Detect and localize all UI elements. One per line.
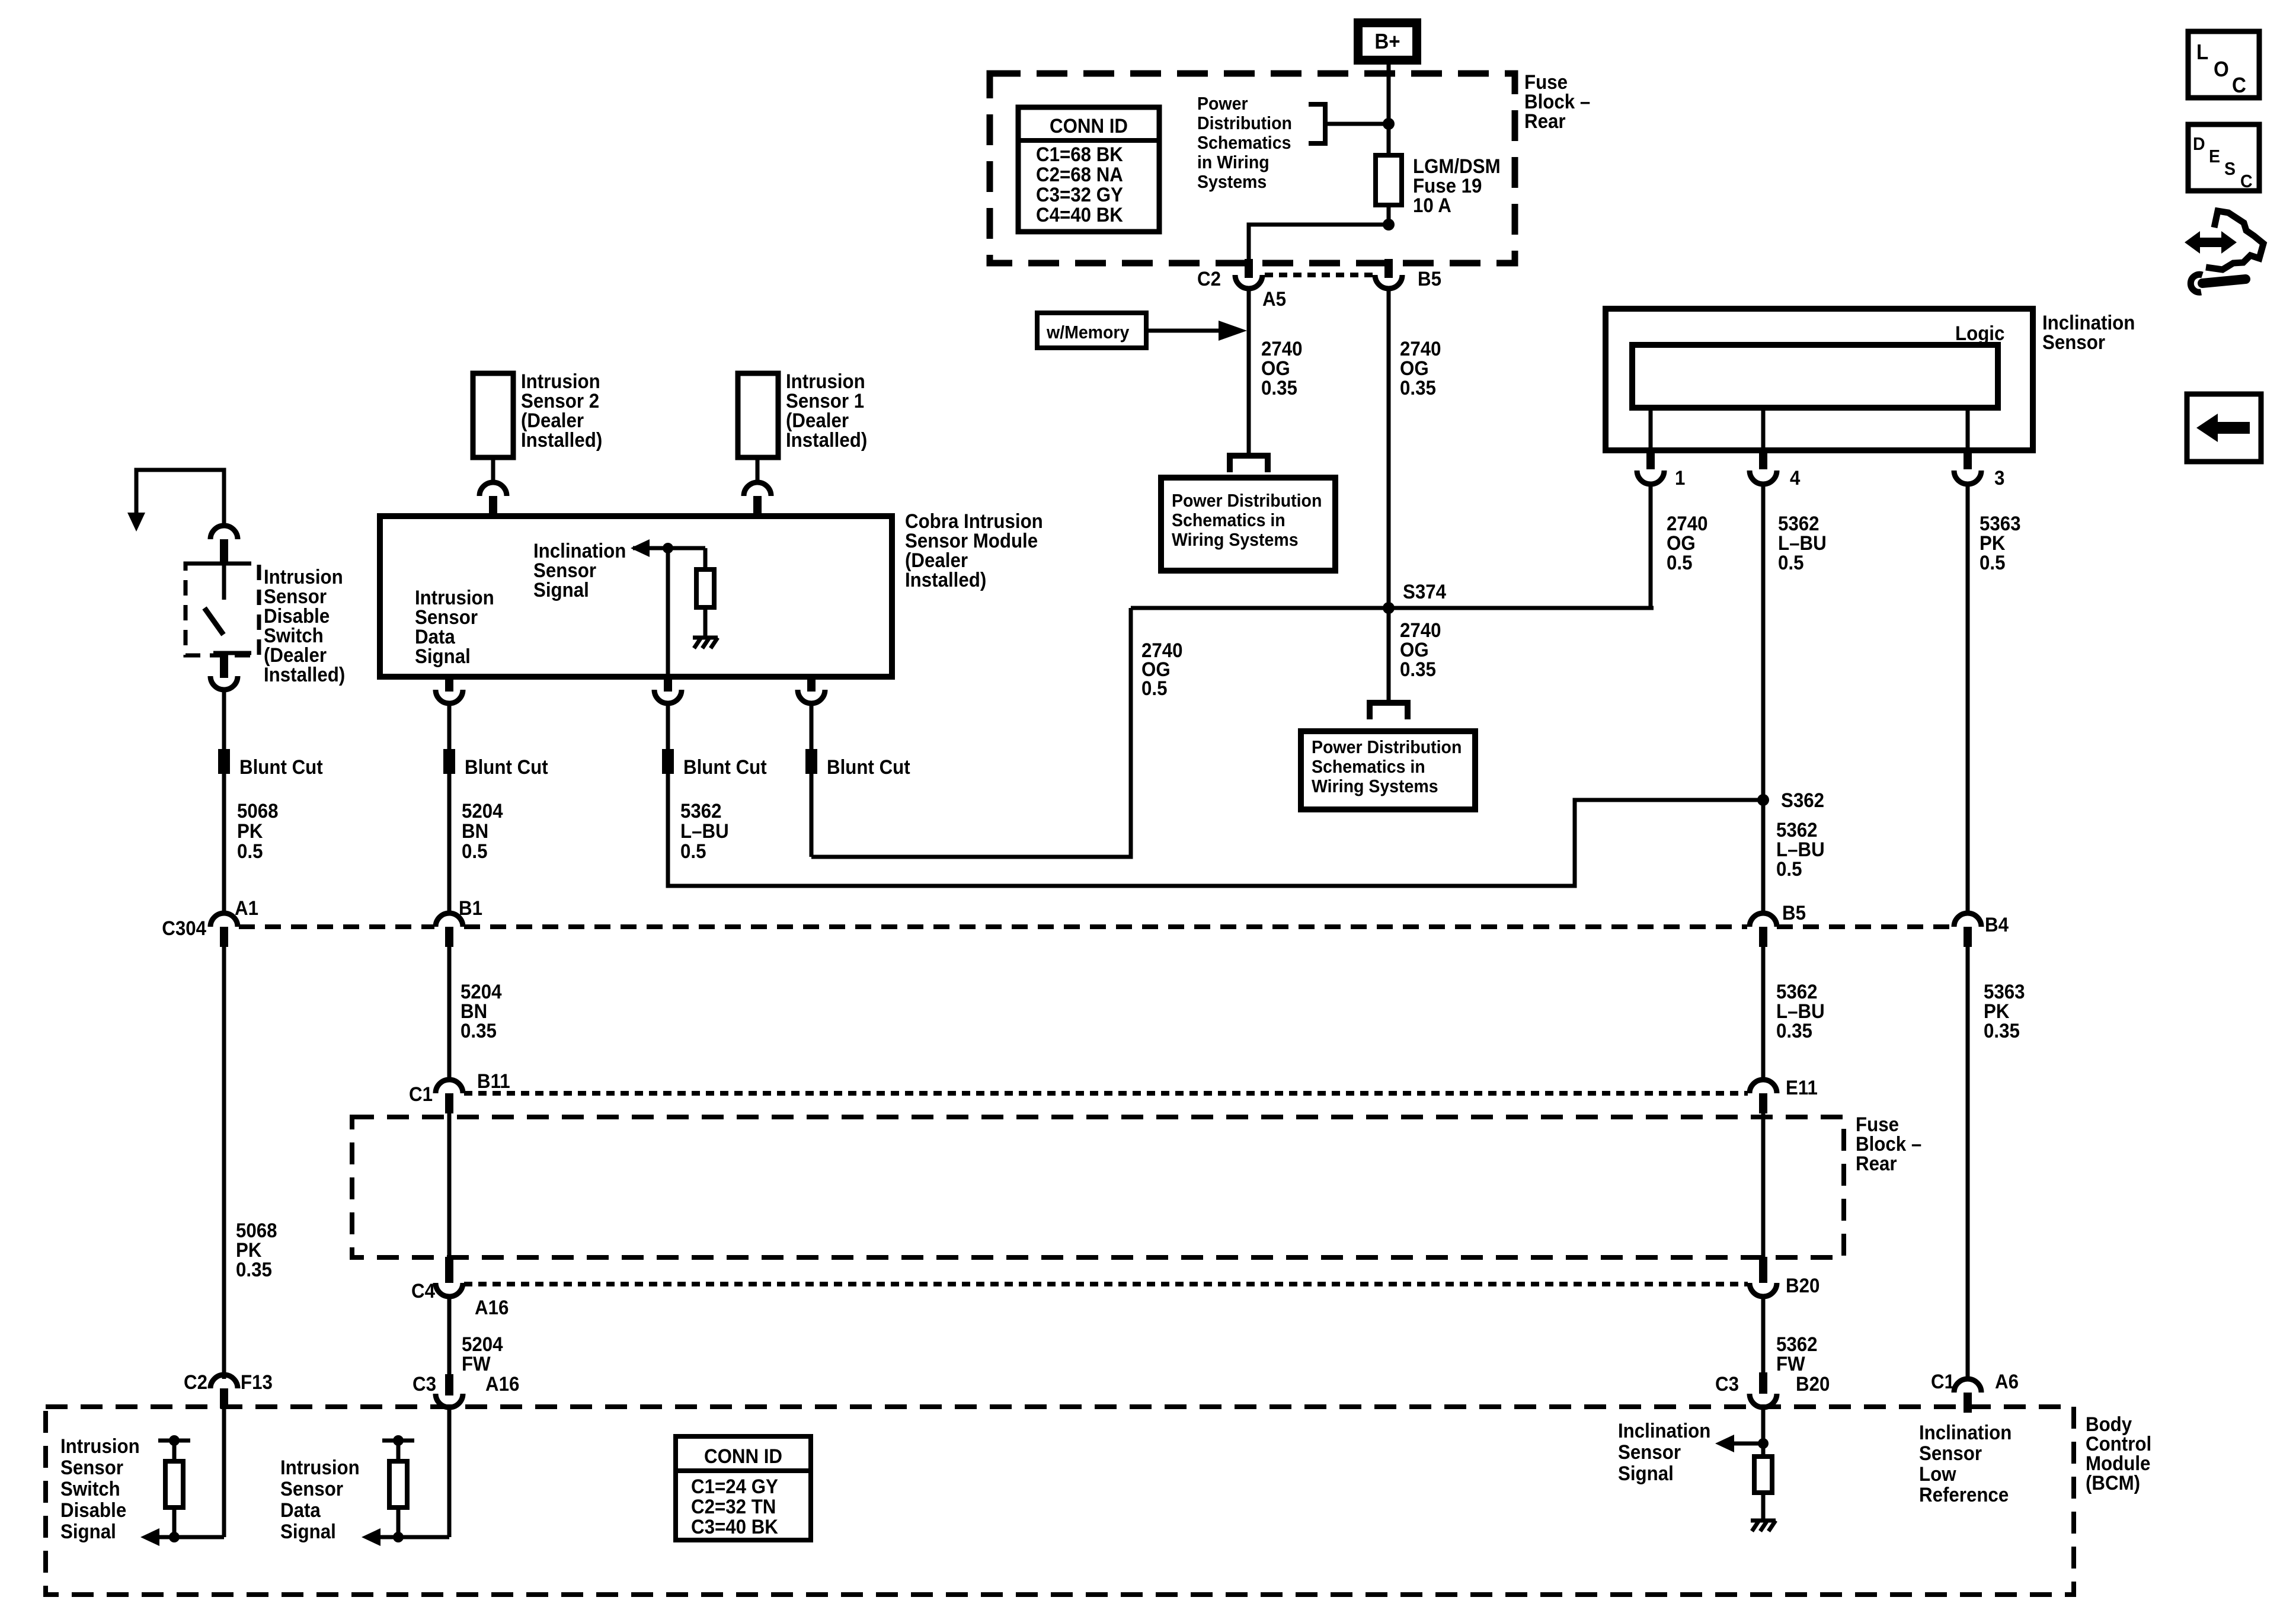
svg-text:Signal: Signal — [1618, 1462, 1674, 1485]
label Inclination Sensor Signal (BCM) — [1618, 1419, 1710, 1485]
svg-text:B+: B+ — [1374, 30, 1400, 54]
svg-text:Signal: Signal — [280, 1520, 336, 1543]
connector half C2-F13 — [210, 1375, 238, 1409]
wire fuse to splice — [1387, 205, 1391, 225]
svg-text:Signal: Signal — [533, 578, 589, 601]
svg-text:F13: F13 — [241, 1371, 273, 1394]
svg-text:B4: B4 — [1985, 913, 2009, 936]
connector C3 / A16 (BCM) — [412, 1372, 519, 1407]
connector half B1 — [436, 913, 463, 947]
svg-text:O: O — [2214, 58, 2229, 82]
svg-text:0.5: 0.5 — [462, 840, 487, 863]
svg-text:3: 3 — [1994, 466, 2004, 489]
svg-text:Inclination: Inclination — [1919, 1421, 2012, 1444]
intrusion sensor 1 — [738, 370, 867, 457]
label Body Control Module (BCM) — [2086, 1413, 2151, 1494]
svg-text:Sensor: Sensor — [1919, 1442, 1982, 1465]
svg-text:A16: A16 — [475, 1296, 509, 1319]
svg-text:0.35: 0.35 — [1400, 376, 1436, 399]
svg-text:Logic: Logic — [1955, 322, 2004, 345]
cobra intrusion sensor module box — [380, 516, 892, 677]
svg-text:C1=24 GY: C1=24 GY — [691, 1475, 778, 1498]
wire riser to battery-positive blunt wire — [811, 608, 1131, 857]
fuse LGM/DSM Fuse 19 10 A — [1376, 155, 1501, 217]
pin 4 connector — [1750, 450, 1800, 489]
svg-text:Distribution: Distribution — [1197, 113, 1292, 133]
svg-text:B20: B20 — [1796, 1372, 1830, 1395]
svg-text:Power Distribution: Power Distribution — [1312, 737, 1462, 757]
svg-text:C1: C1 — [409, 1083, 433, 1106]
connector B20 — [1750, 1257, 1819, 1297]
svg-text:C2=68 NA: C2=68 NA — [1036, 163, 1123, 186]
svg-text:Intrusion: Intrusion — [280, 1456, 360, 1479]
wire battery positive to riser — [810, 774, 814, 857]
svg-text:C2: C2 — [1197, 267, 1221, 290]
CONN ID table (BCM) — [676, 1436, 811, 1540]
wire switch to blunt cut — [222, 690, 226, 749]
label Fuse Block - Rear — [1524, 71, 1590, 133]
svg-text:(BCM): (BCM) — [2086, 1471, 2140, 1494]
svg-text:A5: A5 — [1262, 287, 1286, 311]
svg-text:Sensor: Sensor — [280, 1477, 343, 1500]
blunt cut (data signal) — [443, 749, 455, 774]
svg-text:Systems: Systems — [1197, 172, 1267, 192]
wire A5 branch 2740 OG 0.35 — [1247, 289, 1251, 453]
wire B+ to fuse — [1387, 65, 1391, 155]
svg-text:0.35: 0.35 — [1984, 1019, 2020, 1042]
svg-text:Signal: Signal — [60, 1520, 116, 1543]
junction (data signal) — [393, 1532, 404, 1542]
svg-text:Inclination: Inclination — [1618, 1419, 1710, 1442]
fuse block rear (lower) dashed box — [352, 1117, 1844, 1257]
svg-text:Signal: Signal — [415, 645, 471, 668]
wire bracket to B+ feed — [1325, 122, 1389, 126]
svg-text:E11: E11 — [1786, 1076, 1818, 1099]
svg-text:B11: B11 — [477, 1070, 510, 1093]
svg-text:4: 4 — [1790, 466, 1800, 489]
logic box — [1632, 322, 2004, 408]
svg-text:S374: S374 — [1403, 580, 1446, 603]
svg-text:0.35: 0.35 — [236, 1258, 272, 1281]
icon LOC — [2188, 31, 2259, 98]
wire 5204 FW — [447, 1297, 452, 1374]
BCM switch disable signal arrow — [159, 1535, 224, 1539]
svg-text:PK: PK — [237, 820, 263, 843]
note text Power Distribution Schematics in Wiring Systems (top) — [1197, 94, 1292, 192]
intrusion sensor disable switch — [186, 564, 259, 655]
connector half B4 — [1954, 913, 1981, 947]
wire S374 horizontal — [1131, 606, 1654, 610]
w/Memory box — [1037, 313, 1146, 348]
svg-text:Disable: Disable — [60, 1499, 126, 1522]
terminator bar 2 — [382, 1439, 414, 1443]
wire to blunt cut 3 — [666, 703, 670, 749]
svg-text:Rear: Rear — [1856, 1152, 1897, 1175]
label Intrusion Sensor Data Signal — [280, 1456, 360, 1543]
svg-text:0.5: 0.5 — [1776, 857, 1802, 881]
svg-text:0.5: 0.5 — [1667, 551, 1692, 574]
svg-text:S: S — [2224, 159, 2236, 179]
wire sensor1 to module — [756, 457, 760, 482]
svg-text:Schematics: Schematics — [1197, 133, 1291, 153]
svg-text:Schematics in: Schematics in — [1172, 510, 1285, 530]
wire pin3 5363 PK 0.5 — [1966, 484, 1970, 913]
connector (module battery positive) — [798, 677, 825, 703]
svg-text:S362: S362 — [1781, 789, 1824, 812]
svg-text:Installed): Installed) — [786, 428, 867, 452]
label Fuse Block - Rear (lower) — [1856, 1113, 1921, 1175]
wire pin4 5362 L-BU 0.5 — [1761, 484, 1766, 913]
svg-text:BN: BN — [462, 820, 488, 843]
svg-text:C4=40 BK: C4=40 BK — [1036, 203, 1123, 226]
wire 5362 L-BU 0.35 — [1761, 947, 1766, 1080]
svg-text:Blunt Cut: Blunt Cut — [683, 756, 767, 779]
svg-text:Power Distribution: Power Distribution — [1172, 491, 1322, 511]
svg-text:Wiring Systems: Wiring Systems — [1312, 776, 1438, 796]
label Intrusion Sensor Disable Switch — [264, 565, 345, 686]
wire F13 into BCM — [222, 1409, 226, 1537]
label Inclination Sensor Signal (module) — [533, 539, 626, 601]
box Power Distribution Schematics in Wiring Systems (center) — [1301, 731, 1475, 809]
off-page connector (S374 branch) — [1370, 703, 1408, 719]
harness line C1/B11-E11 — [464, 1091, 1748, 1096]
resistor (inclination signal) — [1754, 1457, 1772, 1493]
svg-text:FW: FW — [1776, 1352, 1805, 1375]
svg-text:1: 1 — [1675, 466, 1685, 489]
svg-text:5204: 5204 — [462, 799, 503, 822]
svg-text:B5: B5 — [1418, 267, 1441, 290]
junction below fuse — [1383, 219, 1395, 231]
connector C4 / A16 — [411, 1257, 509, 1318]
svg-text:Blunt Cut: Blunt Cut — [465, 756, 548, 779]
svg-text:Schematics in: Schematics in — [1312, 757, 1425, 777]
svg-text:5068: 5068 — [237, 799, 279, 822]
fuse block rear (top) dashed box — [990, 73, 1515, 263]
label 5204 BN 0.5 — [462, 799, 503, 863]
dotted harness line C2-B5 — [1265, 273, 1374, 277]
svg-text:CONN ID: CONN ID — [1050, 114, 1128, 137]
body control module dashed box — [46, 1407, 2074, 1595]
svg-text:Power: Power — [1197, 94, 1248, 114]
svg-text:Sensor: Sensor — [2042, 331, 2105, 354]
icon DESC — [2188, 124, 2259, 191]
connector half E11 — [1750, 1080, 1777, 1113]
BCM data signal arrow — [380, 1535, 449, 1539]
junction (module) — [663, 543, 673, 553]
bracket to note — [1309, 104, 1325, 143]
CONN ID table (fuse block rear) — [1018, 107, 1159, 232]
svg-text:Intrusion: Intrusion — [60, 1435, 140, 1458]
junction on B+ feed — [1383, 118, 1395, 130]
label 5068 PK 0.5 — [237, 799, 279, 863]
wire through fuse block (right) — [1761, 1109, 1766, 1257]
svg-text:B20: B20 — [1786, 1274, 1819, 1297]
blunt cut (inclination signal) — [662, 749, 674, 774]
wire to module resistor — [703, 548, 708, 569]
pin wires inside sensor — [1649, 408, 1653, 450]
connector B5 (fuse block exit) — [1375, 259, 1441, 290]
blunt cut (switch wire) — [218, 749, 230, 774]
wire A16 into BCM — [447, 1407, 452, 1537]
svg-text:L: L — [2196, 41, 2208, 65]
label Inclination Sensor Low Reference — [1919, 1421, 2012, 1506]
wire 5204 BN 0.35 — [447, 947, 452, 1080]
harness line C304 — [239, 924, 434, 929]
box Power Distribution Schematics in Wiring Systems (left) — [1161, 478, 1335, 571]
svg-text:0.5: 0.5 — [1980, 551, 2005, 574]
connector (sensor1) — [744, 482, 771, 518]
svg-text:0.35: 0.35 — [1776, 1019, 1812, 1042]
wire module L-BU to S362 — [668, 774, 1763, 886]
svg-text:C: C — [2240, 171, 2253, 191]
label Cobra Intrusion Sensor Module — [905, 510, 1043, 591]
splice S374 — [1383, 602, 1395, 614]
svg-text:Blunt Cut: Blunt Cut — [827, 756, 910, 779]
svg-text:Blunt Cut: Blunt Cut — [239, 756, 323, 779]
svg-text:C1=68 BK: C1=68 BK — [1036, 143, 1123, 166]
pin 1 connector — [1637, 450, 1685, 489]
wire through fuse block (left) — [447, 1109, 452, 1257]
resistor (data signal) — [396, 1441, 401, 1461]
svg-text:in Wiring: in Wiring — [1197, 152, 1269, 172]
connector half B5 — [1750, 913, 1777, 947]
svg-text:Switch: Switch — [60, 1477, 120, 1500]
svg-text:0.35: 0.35 — [1261, 376, 1297, 399]
connector half C1-B11 — [436, 1080, 463, 1113]
wire pin1 2740 OG 0.5 — [1649, 484, 1653, 608]
connector half C1-A6 — [1954, 1379, 1981, 1413]
wire B20 into BCM — [1761, 1407, 1766, 1457]
svg-text:0.5: 0.5 — [237, 840, 263, 863]
junction (disable signal) — [169, 1532, 180, 1542]
connector (switch bottom) — [210, 653, 238, 690]
svg-text:C3: C3 — [1715, 1372, 1739, 1395]
wire S374 down — [1387, 608, 1391, 703]
label Inclination Sensor — [2042, 311, 2135, 354]
svg-text:C3: C3 — [412, 1372, 436, 1395]
svg-text:0.5: 0.5 — [1778, 551, 1803, 574]
terminator bar — [158, 1439, 190, 1443]
svg-text:C2: C2 — [184, 1371, 207, 1394]
svg-text:Installed): Installed) — [521, 428, 602, 452]
intrusion sensor 2 — [473, 370, 602, 457]
wire to blunt cut 2 — [447, 703, 452, 749]
svg-text:Low: Low — [1919, 1462, 1956, 1486]
label Intrusion Sensor Data Signal (module) — [415, 586, 494, 668]
svg-text:Installed): Installed) — [264, 663, 345, 686]
svg-text:Reference: Reference — [1919, 1483, 2009, 1506]
svg-text:C1: C1 — [1931, 1370, 1955, 1393]
svg-text:Sensor: Sensor — [60, 1456, 123, 1479]
wire sensor2 to module — [491, 457, 495, 482]
svg-text:A16: A16 — [485, 1372, 519, 1395]
icon vehicle with wrench — [2185, 211, 2263, 292]
arrow inclination sensor signal — [633, 546, 705, 550]
connector (module inclination signal) — [654, 677, 682, 703]
off-page connector (A5 branch) — [1230, 456, 1268, 472]
wire 5204 to B1 — [447, 774, 452, 913]
connector C3 / B20 (BCM) — [1715, 1372, 1830, 1407]
wire to blunt cut 4 — [810, 703, 814, 749]
connector half C304-A1 — [210, 913, 238, 947]
harness line C4/A16-B20 — [464, 1282, 1748, 1286]
arrow feed to disable switch — [136, 470, 224, 526]
ground (module) — [693, 638, 718, 648]
wire 5068 to A1 — [222, 774, 226, 913]
svg-text:0.35: 0.35 — [461, 1019, 497, 1042]
wire resistor to ground (BCM) — [1761, 1493, 1766, 1519]
B+ battery terminal — [1354, 18, 1421, 65]
svg-text:L–BU: L–BU — [680, 820, 729, 843]
connector (switch top) — [210, 526, 238, 565]
label 5362 L-BU 0.5 (S362 feed) — [1776, 818, 1825, 881]
svg-text:CONN ID: CONN ID — [704, 1445, 782, 1468]
blunt cut (battery positive) — [805, 749, 817, 774]
wire B5 down to S374 — [1387, 289, 1391, 608]
svg-text:C3=40 BK: C3=40 BK — [691, 1515, 778, 1538]
wire branch to C2/A5 — [1249, 225, 1389, 263]
svg-text:Sensor: Sensor — [1618, 1441, 1681, 1464]
connector (sensor2) — [479, 482, 507, 518]
svg-text:C3=32 GY: C3=32 GY — [1036, 183, 1123, 206]
svg-text:B5: B5 — [1782, 901, 1806, 924]
inclination sensor box — [1606, 309, 2033, 450]
ground (BCM) — [1751, 1521, 1776, 1531]
svg-text:E: E — [2209, 146, 2220, 167]
resistor (disable signal) — [172, 1441, 177, 1461]
svg-text:Wiring Systems: Wiring Systems — [1172, 530, 1299, 550]
label 5362 L-BU 0.5 — [680, 799, 729, 863]
svg-text:Rear: Rear — [1524, 110, 1566, 133]
svg-text:C4: C4 — [411, 1279, 435, 1302]
svg-text:w/Memory: w/Memory — [1046, 322, 1130, 343]
junction (inclination signal) — [1758, 1438, 1769, 1449]
splice S362 — [1757, 794, 1769, 806]
wire 5068 PK 0.35 — [222, 947, 226, 1379]
svg-text:Data: Data — [280, 1499, 321, 1522]
svg-text:Installed): Installed) — [905, 568, 986, 591]
svg-text:0.5: 0.5 — [1141, 677, 1167, 700]
label Intrusion Sensor Switch Disable Signal — [60, 1435, 140, 1543]
icon back arrow — [2187, 394, 2261, 462]
BCM inclination sensor signal arrow — [1734, 1442, 1763, 1446]
wire inclination signal down — [666, 548, 670, 677]
svg-text:A1: A1 — [235, 897, 258, 920]
svg-text:C: C — [2232, 74, 2246, 98]
svg-text:C2=32 TN: C2=32 TN — [691, 1495, 776, 1518]
svg-text:FW: FW — [462, 1352, 491, 1375]
connector (module data signal) — [436, 677, 463, 703]
svg-text:10 A: 10 A — [1413, 194, 1451, 217]
pin 3 connector — [1954, 450, 2004, 489]
svg-text:C304: C304 — [162, 917, 206, 940]
wire 5362 FW — [1761, 1297, 1766, 1372]
resistor (module) — [696, 569, 714, 607]
svg-text:B1: B1 — [459, 897, 482, 920]
svg-text:D: D — [2193, 134, 2205, 154]
svg-text:A6: A6 — [1995, 1370, 2019, 1393]
connector C2 / A5 — [1197, 259, 1286, 310]
svg-text:0.35: 0.35 — [1400, 658, 1436, 681]
arrow w/Memory to wire — [1146, 329, 1221, 333]
wire resistor to ground — [703, 607, 708, 636]
svg-text:0.5: 0.5 — [680, 840, 706, 863]
wire 5363 PK 0.35 — [1966, 947, 1970, 1379]
svg-text:5362: 5362 — [680, 799, 722, 822]
